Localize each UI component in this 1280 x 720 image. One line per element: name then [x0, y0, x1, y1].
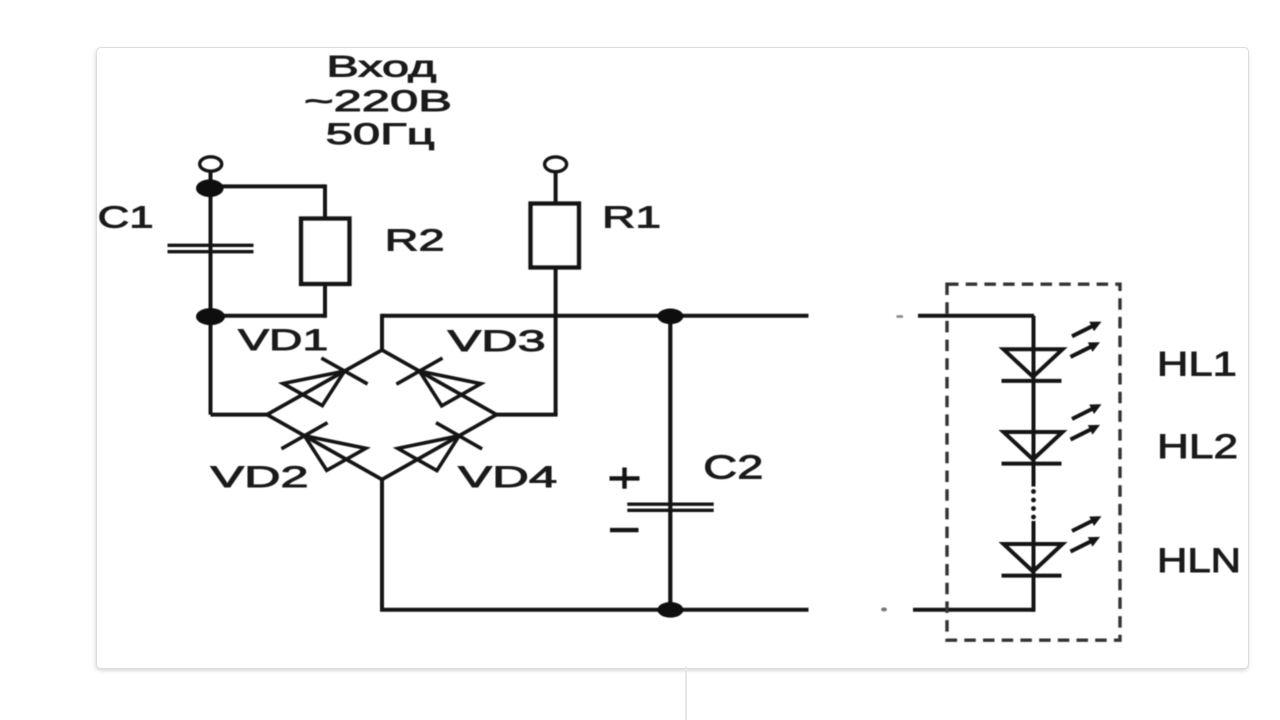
svg-text:R1: R1	[602, 200, 661, 235]
svg-text:VD1: VD1	[238, 324, 328, 357]
svg-text:HL1: HL1	[1157, 346, 1237, 384]
svg-text:VD3: VD3	[448, 325, 546, 358]
svg-text:HLN: HLN	[1157, 542, 1241, 580]
svg-text:C1: C1	[98, 200, 154, 235]
svg-text:50Гц: 50Гц	[326, 118, 435, 151]
svg-text:VD4: VD4	[458, 461, 557, 494]
svg-text:~220В: ~220В	[304, 85, 452, 118]
svg-text:C2: C2	[703, 449, 763, 486]
svg-text:Вход: Вход	[326, 51, 436, 84]
svg-text:HL2: HL2	[1157, 428, 1238, 466]
svg-text:VD2: VD2	[211, 461, 309, 494]
svg-text:R2: R2	[385, 223, 445, 258]
